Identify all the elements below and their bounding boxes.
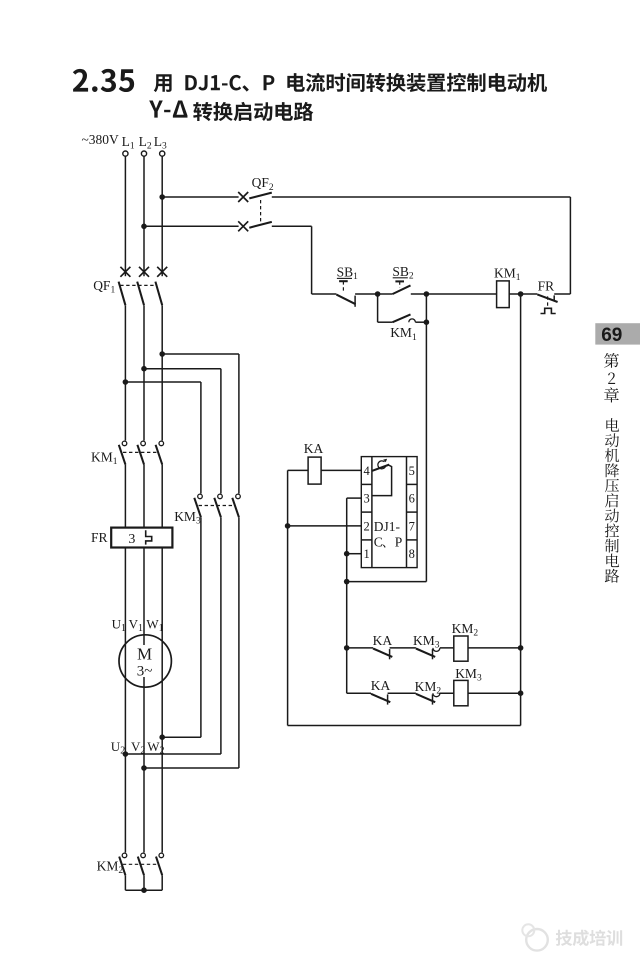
svg-text:5: 5 [409,464,415,478]
svg-text:4: 4 [363,464,370,478]
wire drop to control rail [311,226,313,294]
svg-text:FR: FR [538,278,555,293]
svg-text:3: 3 [128,532,135,547]
wire pin3 left [347,497,362,499]
wire delta branch C down [238,354,240,494]
terminal L2 [141,151,146,156]
node before FR [518,291,524,297]
wire to KA coil [288,469,309,471]
svg-text:KM3: KM3 [174,509,201,527]
wire coil to FR [509,293,520,295]
contactor KM1 main pole x=162 [159,441,164,446]
contactor KM1 main pole x=144 [141,441,146,446]
svg-text:KM1: KM1 [91,450,118,468]
wire L1 to star bar [124,875,126,890]
wire right branch down [520,294,522,726]
wire QF2 pole1 to right rail [272,196,571,198]
node row2 right [518,690,524,696]
svg-text:8: 8 [409,547,415,561]
svg-text:P: P [395,535,403,550]
contactor KM2 pole x=162 [159,853,164,858]
svg-text:7: 7 [409,519,415,533]
coil KM2 [454,636,468,661]
node L3 tap [159,194,165,200]
node aux right [424,319,430,325]
svg-text:U1: U1 [112,616,126,634]
wire L3 FR to motor [161,548,163,853]
wire U2 to branch B [125,753,220,755]
star point node [141,887,147,893]
wire V2 to branch C [144,767,239,769]
wire [390,647,416,649]
wire W2 to branch A [162,736,201,738]
KM2 linkage dashed [123,863,159,865]
relay coil KA [308,457,321,484]
svg-text:KM2: KM2 [415,679,442,697]
QF2 linkage dashed [260,200,262,224]
margin chapter: 第2章 [604,353,619,368]
contactor KM2 pole x=125 [122,853,127,858]
svg-text:KA: KA [371,678,391,693]
KM3 linkage dashed [199,505,236,507]
wire to SB2 [378,293,393,295]
breaker QF1 pole x=162 [157,267,167,277]
QF1 linkage dashed [120,284,157,286]
wire bottom return [288,725,521,727]
node L3 delta tap [159,351,165,357]
svg-text:KA: KA [304,441,324,456]
contactor KM3 main pole x=201 [198,494,203,499]
svg-text:6: 6 [409,492,415,506]
wire L2 below QF1 [143,305,145,440]
svg-text:KM1: KM1 [390,325,417,343]
wire L1 below QF1 [124,305,126,440]
svg-text:L3: L3 [154,134,167,152]
coil KM3 [454,680,468,705]
wire L2 to QF2 pole2 [144,225,239,227]
wire SB2 to node [411,293,427,295]
wire L3 drop to QF1 [161,156,163,276]
wire node to KM1 coil [426,293,496,295]
title number 2.35 [73,69,88,92]
node row1 right [518,645,524,651]
svg-text:69: 69 [601,325,622,346]
wire row2 lead [347,692,371,694]
contact KA NC row1 [373,649,392,657]
watermark text 技成培训 [556,930,572,946]
svg-text:2: 2 [363,519,369,533]
svg-text:3: 3 [363,492,369,506]
wire delta branch A down [200,382,202,494]
svg-text:KM2: KM2 [97,858,124,876]
svg-text:DJ1-: DJ1- [374,519,401,534]
node U2 [123,751,129,757]
node W2 [159,734,165,740]
contact KM2 NC row2 [416,694,435,702]
svg-text:L2: L2 [139,134,152,152]
node V2 [141,765,147,771]
wire coil to right [468,647,521,649]
node L1 delta tap [123,379,129,385]
svg-text:KM3: KM3 [413,633,440,651]
wire L3 below QF1 [161,305,163,440]
node pin1 tap [344,551,350,557]
KM1 self-holding branch [377,294,379,322]
contactor KM3 main pole x=221 [218,494,223,499]
margin title: 电动机降压启动控制电路 (vertical) [606,418,619,432]
node after SB1 [375,291,381,297]
wire L1 KM1 to FR [124,464,126,527]
motor M circle [119,635,171,687]
wire L2 to star bar [143,875,145,890]
contactor KM2 pole x=144 [141,853,146,858]
FR heater element symbol [146,530,152,544]
wire L3 to star bar [161,875,163,890]
svg-text:KM2: KM2 [452,621,479,639]
svg-text:KM1: KM1 [494,266,521,284]
contact KA NC row2 [371,694,390,702]
svg-text:SB1: SB1 [337,264,359,282]
wire L1 drop to QF1 [124,156,126,276]
svg-text:1: 1 [363,547,369,561]
svg-text:QF1: QF1 [93,278,115,296]
wire L2 KM1 to FR [143,464,145,527]
contactor KM1 main pole x=125 [122,441,127,446]
breaker QF2 pole 1 [238,192,248,202]
breaker QF1 pole x=125 [120,267,130,277]
wire row1 lead [347,647,373,649]
contactor KM3 main pole x=239 [236,494,241,499]
svg-text:V1: V1 [129,616,143,634]
watermark logo [526,929,548,951]
wire delta branch B down [220,369,222,494]
svg-text:C: C [374,535,383,550]
wire pin3 vertical down [346,498,348,693]
svg-text:L1: L1 [122,134,135,152]
node row1 left [344,645,350,651]
wire L1 tap right [125,381,200,383]
contact KM1 aux NO [393,314,411,322]
title line 2 [149,101,163,118]
svg-text:3~: 3~ [137,664,153,680]
wire L2 drop to QF1 [143,156,145,276]
node L2 tap [141,224,147,230]
wire [388,692,416,694]
node timer bottom [344,579,350,585]
wire branch C below KM3 [238,517,240,768]
svg-text:~380V: ~380V [82,132,120,147]
KM1 linkage dashed [123,451,158,453]
wire branch A below KM3 [200,517,202,737]
wire pin1 left [347,553,362,555]
page number box 69 [595,323,640,344]
wire L3 tap right [162,353,239,355]
wire L2 tap right [144,368,221,370]
svg-text:SB2: SB2 [392,264,414,282]
timer internal delayed contact [372,465,389,471]
wire right rail drop [569,197,571,294]
title line 1 [154,74,172,92]
wire QF2 pole2 right [272,225,312,227]
breaker QF2 pole 2 [238,221,248,231]
wire L2 FR to motor [143,548,145,853]
terminal L1 [123,151,128,156]
svg-text:KA: KA [373,633,393,648]
timer pin strips [371,457,373,568]
svg-text:M: M [137,644,152,663]
wire rail from QF2 [312,293,337,295]
terminal L3 [160,151,165,156]
wire KA-pin2 vertical [287,470,289,725]
wire timer bottom horizontal [347,581,427,583]
node pin2 tap [285,523,291,529]
breaker QF1 pole x=144 [139,267,149,277]
wire L3 to QF2 pole1 [162,196,238,198]
wire L1 FR to motor [124,548,126,853]
wire SB2-node down to timer [425,322,427,581]
svg-text:FR: FR [91,530,108,545]
coil KM1 [497,281,510,308]
wire L3 KM1 to FR [161,464,163,527]
wire [440,647,456,649]
svg-text:KM3: KM3 [455,666,482,684]
wire SB1 to node [355,293,378,295]
wire coil to right [468,692,520,694]
svg-text:QF2: QF2 [252,175,274,193]
node L2 delta tap [141,366,147,372]
timer DJ1-C,P outline [361,457,417,568]
node after SB2 [424,291,430,297]
contact KM3 NC row1 [416,649,435,657]
svg-text:W1: W1 [146,616,163,634]
wire [440,692,456,694]
star point bar [125,889,162,891]
wire KA to pin4 [321,469,361,471]
thermal relay FR heater box [111,528,172,548]
wire pin2 left [288,525,362,527]
wire branch B below KM3 [220,517,222,754]
